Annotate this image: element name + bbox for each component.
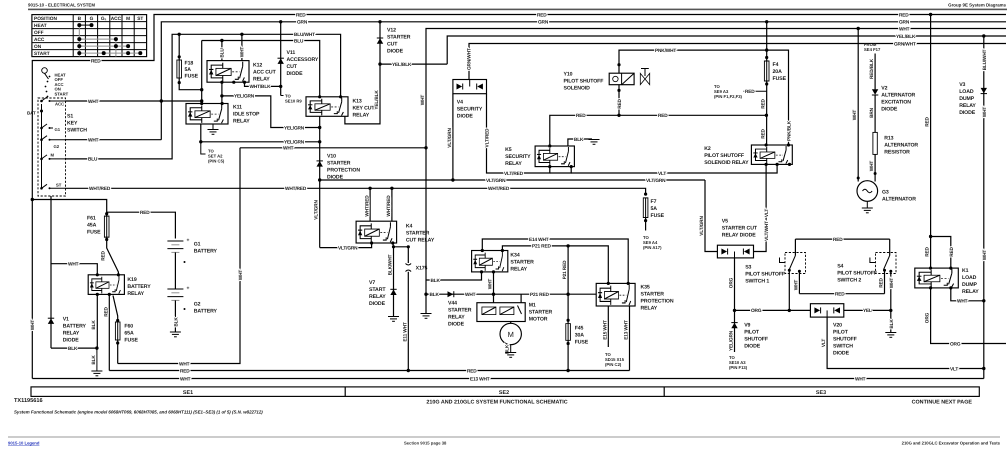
svg-text:RELAY: RELAY [959,103,976,109]
wire S1 bottom to F61 [32,200,106,217]
tap TO SET A2 [201,142,206,154]
svg-text:DIODE: DIODE [959,110,976,116]
wire RED S3-S4 bottom row [799,293,884,295]
svg-text:YEL/GRN: YEL/GRN [729,330,735,351]
svg-text:210G AND 210GLC SYSTEM FUNCTIO: 210G AND 210GLC SYSTEM FUNCTIONAL SCHEMA… [426,400,567,406]
svg-text:V20: V20 [833,322,842,328]
wire WHT alternator from bus [857,29,859,182]
svg-text:WHT: WHT [88,99,99,105]
svg-text:WHT/RED: WHT/RED [488,186,510,192]
relay K4 starter cut [356,187,435,245]
svg-text:DIODE: DIODE [369,301,386,307]
svg-text:ACC: ACC [34,37,45,43]
svg-text:GRN/WHT: GRN/WHT [894,41,916,47]
diode pack V4 security diode [453,80,487,120]
diode V11 [278,20,319,103]
svg-text:BLU/WHT: BLU/WHT [294,32,315,38]
svg-text:STARTER: STARTER [448,308,472,314]
wire BLK/V44/WHT/P21 RED row [426,293,596,295]
svg-text:RED: RED [296,12,306,18]
svg-text:DIODE: DIODE [448,322,465,328]
bus YEL/BLK [447,36,1006,64]
svg-text:DIODE: DIODE [881,106,898,112]
svg-text:E15 WHT: E15 WHT [602,320,608,340]
relay K2 pilot shutoff solenoid relay [704,143,792,166]
svg-text:START: START [369,287,386,293]
wire WHT vertical to battery fuses [118,148,240,364]
svg-text:RELAY: RELAY [505,161,522,167]
svg-text:(PIN C2): (PIN C2) [605,362,622,367]
relay K13 [306,95,375,118]
svg-text:9015-10 Legend: 9015-10 Legend [8,441,40,446]
svg-text:65A: 65A [124,331,134,337]
svg-text:WHT/RED: WHT/RED [364,195,370,217]
svg-text:WHT: WHT [982,250,988,261]
wire WHT/RED S1 ST row to fuse F7 [66,188,646,194]
svg-text:PILOT: PILOT [833,329,849,335]
svg-text:FUSE: FUSE [773,76,787,82]
svg-text:BLK: BLK [91,355,97,365]
svg-text:VLT/WHT: VLT/WHT [764,221,770,241]
wire VLT/GRN to K4 coil [320,243,372,248]
svg-text:RED: RED [745,89,755,95]
relay K11 [186,102,260,142]
svg-text:V3: V3 [959,82,965,88]
svg-text:30A: 30A [575,333,585,339]
ground below V1/K19 [96,348,98,370]
svg-text:RED: RED [91,58,101,64]
svg-text:RED: RED [761,128,767,138]
svg-text:V10: V10 [327,154,336,160]
svg-text:V12: V12 [387,28,396,34]
svg-text:PNK/BLK: PNK/BLK [787,120,793,141]
wire F61 to K19 switch [107,237,119,275]
svg-text:BLK: BLK [430,292,440,298]
svg-text:ACC CUT: ACC CUT [253,69,277,75]
diode V7 start relay diode [369,247,399,321]
svg-text:CUT RELAY: CUT RELAY [406,237,435,243]
svg-text:RED/BLK: RED/BLK [869,58,875,79]
svg-text:BLK/WHT: BLK/WHT [388,254,394,275]
relay K12 [207,34,277,103]
wire ORG row to V20 [735,309,811,311]
svg-text:RED: RED [576,113,586,119]
svg-text:RED: RED [101,250,107,260]
svg-text:RED: RED [879,277,885,287]
resistor R13 alternator resistor [869,132,918,181]
wire PNK/WHT Y10 feed row [619,50,789,145]
svg-text:PROTECTION: PROTECTION [641,298,674,304]
svg-text:WHT/BLK: WHT/BLK [250,84,272,90]
svg-text:PNK/WHT: PNK/WHT [655,48,676,54]
svg-text:MOTOR: MOTOR [529,316,548,322]
svg-text:WHT: WHT [420,95,426,106]
svg-text:RELAY: RELAY [641,305,658,311]
svg-text:STARTER: STARTER [406,230,430,236]
svg-text:GRN: GRN [297,20,308,26]
svg-text:RED: RED [617,98,623,108]
svg-text:V11: V11 [287,50,296,56]
battery G1 [167,238,217,290]
wire BLK row to K34 coil [426,272,482,280]
svg-text:WHT: WHT [179,361,190,367]
svg-text:WHT/RED: WHT/RED [89,186,111,192]
svg-text:BLK: BLK [574,137,584,143]
svg-text:START: START [55,91,69,96]
svg-text:SWITCH 2: SWITCH 2 [837,278,861,284]
svg-text:V4: V4 [457,100,463,106]
bus WHT [426,29,1006,314]
svg-text:SHUTOFF: SHUTOFF [833,336,857,342]
svg-text:RELAY DIODE: RELAY DIODE [722,233,756,239]
svg-text:ORG: ORG [751,308,762,314]
svg-text:YEL/BLK: YEL/BLK [896,34,916,40]
wire RED row K5 coil feed [550,115,767,146]
svg-text:CUT: CUT [387,42,398,48]
wire VLT K2 coil out to V5 [754,164,767,251]
svg-text:POSITION: POSITION [34,16,57,22]
svg-text:RELAY: RELAY [369,294,386,300]
svg-text:START: START [34,51,50,57]
svg-text:SE4 F17: SE4 F17 [864,47,881,52]
svg-text:RELAY: RELAY [353,112,370,118]
svg-text:DIODE: DIODE [63,338,80,344]
wire BLU S1 M row to BLU/WHT vertical [66,34,341,159]
svg-text:ACC: ACC [111,16,122,22]
diode pack V5 starter cut relay diode [717,219,757,258]
svg-text:STARTER: STARTER [529,309,553,315]
SE section bar [31,387,979,397]
diode V44 starter relay diode [448,291,454,297]
svg-text:5A: 5A [185,67,192,73]
svg-text:LOAD: LOAD [962,275,977,281]
svg-text:SWITCH: SWITCH [833,343,853,349]
diode pack V20 pilot shutoff switch diode [810,304,856,357]
svg-text:RELAY: RELAY [510,266,527,272]
wire VLT/GRN to V5 left [705,180,717,252]
svg-text:BLU/WHT: BLU/WHT [982,49,988,70]
svg-text:F60: F60 [124,324,133,330]
svg-text:S3: S3 [745,265,751,271]
header rule [28,9,1007,11]
svg-text:RELAY: RELAY [448,315,465,321]
svg-text:WHT: WHT [68,262,79,268]
wire ORG K1 coil out [931,288,1006,344]
svg-text:M1: M1 [529,302,536,308]
svg-text:STARTER: STARTER [641,291,665,297]
svg-text:LOAD: LOAD [959,89,974,95]
svg-text:RELAY: RELAY [127,291,144,297]
relay K35 starter protection [596,282,674,312]
svg-text:E13 WHT: E13 WHT [624,320,630,340]
svg-text:BLU: BLU [294,38,304,44]
wire YEL/GRN K11 bottom row [201,141,320,143]
svg-text:WHT: WHT [283,146,294,152]
svg-text:G2: G2 [194,302,201,308]
wire P21 RED row [502,246,608,284]
svg-text:X175: X175 [416,266,428,272]
wire E13 WHT K35 switch out [629,306,631,371]
relay K5 security relay [505,144,574,168]
svg-text:RED: RED [140,210,150,216]
svg-text:M: M [126,16,130,22]
svg-text:WHT: WHT [793,280,799,291]
svg-text:K5: K5 [505,147,512,153]
svg-text:VLT: VLT [764,209,770,217]
svg-text:M: M [51,153,55,158]
starter motor M1 [477,294,553,357]
svg-text:V5: V5 [722,219,728,225]
svg-text:PILOT SHUTOFF: PILOT SHUTOFF [564,79,604,85]
svg-text:STARTER: STARTER [327,161,351,167]
svg-text:WHT: WHT [30,320,36,331]
switch S3 pilot shutoff 1 [745,239,805,310]
svg-text:F7: F7 [651,199,657,205]
svg-text:FUSE: FUSE [124,338,138,344]
svg-text:VLT/GRN: VLT/GRN [338,245,358,251]
diode V12 starter cut [377,38,383,44]
wire K4 switch out split [393,243,409,247]
svg-text:BATTERY: BATTERY [63,324,87,330]
svg-text:STARTER: STARTER [387,35,411,41]
svg-text:G2: G2 [54,144,60,149]
svg-text:SE3: SE3 [816,390,826,396]
svg-text:SE2: SE2 [499,390,509,396]
svg-text:YEL/GRN: YEL/GRN [234,94,255,100]
key switch position table [32,15,147,58]
svg-text:WHT/RED: WHT/RED [285,186,307,192]
wire RED F61 to G1 battery [107,212,176,238]
svg-text:Y10: Y10 [564,72,573,78]
svg-text:210G and 210GLC Excavator Oper: 210G and 210GLC Excavator Operation and … [902,441,1001,446]
wire BAT left vertical [31,111,33,379]
svg-text:DIODE: DIODE [457,114,474,120]
diode V3 load dump relay diode [959,34,988,378]
svg-text:SECURITY: SECURITY [505,154,531,160]
key switch S1 [27,68,87,196]
relay K34 starter relay [472,249,535,274]
svg-text:STARTER: STARTER [510,259,534,265]
svg-text:(PIN F13): (PIN F13) [729,365,748,370]
fuse F4 [714,20,787,145]
diode V1 battery relay diode [48,264,87,348]
svg-text:VLT/GRN: VLT/GRN [646,178,666,184]
svg-text:PROTECTION: PROTECTION [327,168,360,174]
svg-text:45A: 45A [87,223,97,229]
wire RED K19 out to bottom red row [108,294,110,370]
solenoid Y10 pilot shutoff [564,69,650,92]
svg-text:P21 RED: P21 RED [532,244,551,250]
wire WHT full bottom row [32,378,984,380]
svg-text:YEL/BLK: YEL/BLK [392,62,412,68]
svg-text:B: B [78,16,82,22]
bus GRN [161,22,1006,140]
wire WHT/BLK K12 out [245,82,281,86]
wire WHT S1 to K19 coil [51,196,97,275]
svg-text:K34: K34 [510,252,519,258]
battery G2 [167,286,217,337]
svg-text:S4: S4 [837,264,843,270]
svg-text:PILOT: PILOT [744,330,760,336]
svg-text:+: + [187,238,190,244]
fuse F7 [643,193,665,251]
svg-text:YEL/GRN: YEL/GRN [284,125,305,131]
connector X175 [402,247,427,372]
wire WHT row mid [240,147,426,149]
svg-text:WHT: WHT [889,278,895,289]
svg-text:BLK: BLK [91,320,97,330]
relay K1 load dump relay [915,267,979,296]
svg-text:KEY: KEY [67,121,78,127]
svg-text:STARTER CUT: STARTER CUT [722,226,758,232]
wire E15 WHT K35 coil out [607,306,609,347]
svg-text:G3: G3 [882,190,889,196]
svg-text:RELAY: RELAY [233,118,250,124]
svg-text:WHT: WHT [488,279,494,290]
svg-text:WHT: WHT [982,107,988,118]
svg-text:ST: ST [137,16,143,22]
svg-text:BAT: BAT [27,111,36,116]
svg-text:RED: RED [925,116,931,126]
svg-text:Group 9E System Diagrams: Group 9E System Diagrams [948,3,1006,8]
wire VLT V20 bottom to K1 [827,317,984,368]
svg-text:TX1195616: TX1195616 [14,398,43,404]
svg-text:YEL/GRN: YEL/GRN [284,140,305,146]
svg-text:RED: RED [761,98,767,108]
svg-text:BLU: BLU [220,48,226,58]
svg-text:RED: RED [103,306,109,316]
svg-text:DUMP: DUMP [962,282,978,288]
svg-text:M: M [508,330,514,339]
fuse F61 [104,216,109,237]
svg-text:IDLE STOP: IDLE STOP [233,111,260,117]
wire ORG V5 down to row [734,258,736,311]
svg-text:K12: K12 [253,62,262,68]
svg-text:WHT/RED: WHT/RED [386,195,392,217]
svg-text:SE10 R9: SE10 R9 [285,99,302,104]
svg-text:V1: V1 [63,317,69,323]
wire WHT K1 switch out [951,288,984,301]
svg-text:BLK: BLK [68,346,78,352]
svg-text:SHUTOFF: SHUTOFF [744,337,768,343]
svg-text:CONTINUE NEXT PAGE: CONTINUE NEXT PAGE [912,400,973,406]
svg-text:V7: V7 [369,280,375,286]
svg-text:K13: K13 [353,98,362,104]
fuse F60 [113,296,118,323]
svg-text:ACCESSORY: ACCESSORY [287,57,319,63]
bus RED [32,15,1006,112]
svg-text:RED: RED [180,368,190,374]
svg-text:K1: K1 [962,268,969,274]
alternator G3 [857,181,916,213]
svg-text:9015-10 - ELECTRICAL SYSTEM: 9015-10 - ELECTRICAL SYSTEM [28,3,95,8]
svg-text:K2: K2 [704,146,711,152]
svg-text:ALTERNATOR: ALTERNATOR [881,92,915,98]
svg-text:HEAT: HEAT [34,23,47,29]
svg-text:WHT: WHT [852,110,858,121]
svg-text:VLT/GRN: VLT/GRN [486,178,506,184]
svg-text:ORG: ORG [950,341,961,347]
svg-text:BATTERY: BATTERY [127,284,151,290]
svg-text:(PIN A17): (PIN A17) [643,245,662,250]
svg-text:ALTERNATOR: ALTERNATOR [882,197,916,203]
wire RED Y10 bottom [618,85,620,116]
svg-text:RED: RED [467,368,477,374]
ground on WHT bus bottom [424,293,427,296]
svg-text:(PIN F1,F2,F3): (PIN F1,F2,F3) [714,94,743,99]
switch S4 pilot shutoff 2 [837,239,896,337]
wire RED bottom row [109,370,629,372]
svg-text:CUT: CUT [287,64,298,70]
svg-text:BLK: BLK [173,317,179,327]
wire YEL/BLK K13 switch out [345,22,380,124]
svg-text:SECURITY: SECURITY [457,107,483,113]
wire VLT K5 switch out to K2 [550,167,571,173]
svg-text:E14 WHT: E14 WHT [529,237,549,243]
svg-text:ACC: ACC [55,102,64,107]
wire VLT/RED V4 right pin [487,94,550,173]
svg-text:OFF: OFF [34,30,44,36]
svg-text:VLT/GRN: VLT/GRN [447,128,453,148]
svg-text:BATTERY: BATTERY [194,309,218,315]
svg-text:RED: RED [835,292,845,298]
svg-text:FUSE: FUSE [651,213,665,219]
diode V10 starter protection chain [314,116,361,247]
svg-text:P21 RED: P21 RED [562,260,568,279]
svg-text:FUSE: FUSE [575,340,589,346]
svg-text:GRN: GRN [538,20,549,26]
svg-text:DIODE: DIODE [287,71,304,77]
wire RED/BLK from SE4 F17 [864,42,881,89]
svg-text:G1: G1 [194,242,201,248]
svg-text:VLT/GRN: VLT/GRN [699,216,705,236]
fuse F18 [178,34,180,60]
svg-text:FUSE: FUSE [87,230,101,236]
svg-text:E11 WHT: E11 WHT [402,322,408,342]
wire E14 WHT row [482,239,628,283]
svg-text:RED: RED [658,113,668,119]
svg-text:S1: S1 [67,114,73,120]
svg-text:K19: K19 [127,277,136,283]
svg-text:SOLENOID RELAY: SOLENOID RELAY [704,160,749,166]
svg-text:YEL/BLK: YEL/BLK [374,90,380,110]
wire BLK K5 switch top to ground [568,139,592,146]
svg-text:ALTERNATOR: ALTERNATOR [884,142,918,148]
svg-text:SWITCH: SWITCH [67,128,87,134]
svg-text:WHT: WHT [869,161,875,172]
svg-text:G1: G1 [55,127,61,132]
wire RED load dump feed [925,13,955,268]
svg-text:RELAY: RELAY [962,289,979,295]
diode V9 pilot shutoff diode [729,310,768,370]
svg-text:PILOT SHUTOFF: PILOT SHUTOFF [837,271,877,277]
svg-text:SE1: SE1 [183,390,193,396]
svg-text:V9: V9 [744,323,750,329]
svg-text:G₁: G₁ [101,16,107,22]
svg-text:DUMP: DUMP [959,96,975,102]
svg-text:E13 WHT: E13 WHT [470,376,490,382]
svg-text:F45: F45 [575,326,584,332]
svg-text:BLK: BLK [889,319,895,329]
svg-text:ORG: ORG [925,312,931,323]
relay K19 battery relay [88,273,151,297]
wire WHT S1 ACC row [66,100,202,102]
svg-text:RED: RED [537,12,547,18]
svg-text:BLK: BLK [431,278,441,284]
svg-text:PILOT SHUTOFF: PILOT SHUTOFF [745,272,785,278]
bus GRN/WHT [469,44,1006,80]
svg-text:VLT/RED: VLT/RED [504,171,524,177]
